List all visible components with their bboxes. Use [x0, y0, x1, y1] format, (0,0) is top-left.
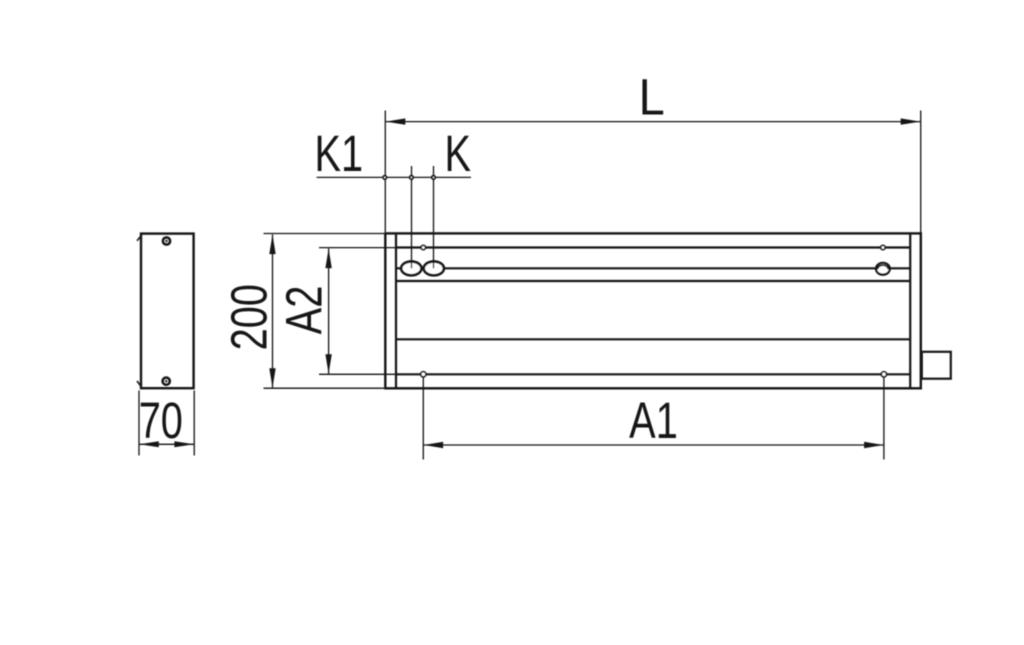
main body internal line (slot center line)	[396, 267, 910, 269]
slot hole right	[876, 263, 890, 275]
slot hole middle	[424, 262, 444, 276]
side view outline	[141, 234, 194, 389]
svg-text:200: 200	[221, 284, 278, 350]
dimension L line	[385, 121, 920, 123]
svg-text:A1: A1	[629, 392, 678, 449]
top hole ring left	[421, 245, 425, 249]
dimension A1 extension lines	[423, 377, 884, 460]
dimension A1 arrowheads	[424, 442, 444, 448]
dimension A1 line	[423, 444, 884, 446]
dimension 70 arrowheads	[139, 441, 159, 447]
svg-text:70: 70	[139, 392, 183, 449]
dimension A2 line	[328, 248, 330, 374]
main body internal line (bottom hole line)	[396, 373, 910, 375]
slot hole left	[401, 262, 421, 276]
slot hole right inner arc	[878, 265, 889, 269]
side view corner tick bottom-left	[137, 381, 142, 387]
K/K1 leader reference dots	[382, 175, 387, 180]
side view screw hole top	[163, 237, 170, 244]
svg-text:A2: A2	[276, 286, 333, 335]
K leader stub to hole 1	[411, 166, 413, 268]
dimension L extension line left	[384, 111, 386, 233]
dimension A2 arrowheads	[325, 249, 331, 269]
side view screw hole bottom	[163, 378, 170, 385]
dimension 70 line	[139, 443, 194, 445]
dimension 200 line	[272, 234, 274, 388]
K leader stub tails inside slots	[412, 261, 434, 269]
main body internal line (lower band)	[396, 338, 910, 340]
dimension 200 extension lines	[264, 234, 385, 389]
top hole ring right	[881, 245, 885, 249]
side view corner tick top-left	[137, 235, 142, 240]
dimension 70 extension lines	[139, 391, 194, 456]
main body inner vertical line right	[909, 233, 911, 388]
dimension L extension line right	[920, 111, 922, 239]
main body internal line (below slots)	[396, 280, 910, 282]
K/K1 leader line	[317, 176, 471, 178]
main body outline	[385, 233, 921, 388]
svg-text:K1: K1	[315, 125, 364, 182]
main body inner vertical line left	[395, 233, 397, 388]
svg-text:L: L	[639, 70, 665, 126]
bottom hole ring left	[421, 372, 426, 377]
shaft protrusion	[922, 352, 951, 379]
dimension 200 arrowheads	[269, 235, 275, 255]
main body internal line (top hole line)	[396, 246, 910, 248]
svg-text:K: K	[445, 125, 472, 182]
bottom hole ring right	[881, 372, 886, 377]
K leader stub to hole 2	[433, 166, 435, 268]
dimension L arrowheads	[386, 118, 406, 124]
dimension A2 extension lines	[319, 248, 396, 375]
